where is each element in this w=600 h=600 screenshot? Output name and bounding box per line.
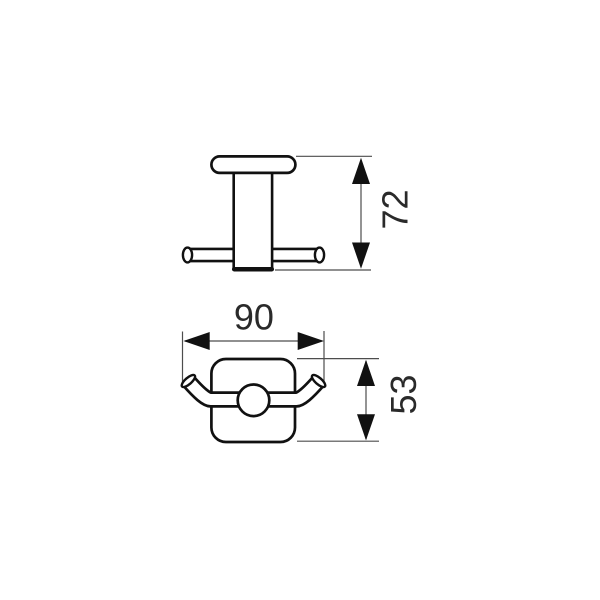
extension line bottom (53 dim) xyxy=(297,440,379,442)
extension line left (90 dim) xyxy=(182,332,184,389)
arrowhead right (90) xyxy=(298,332,324,350)
extension line top (53 dim) xyxy=(297,358,379,360)
svg-text:72: 72 xyxy=(375,189,416,229)
bar right end cap xyxy=(315,248,324,263)
post bottom thick edge xyxy=(234,267,272,272)
post (top view) xyxy=(234,170,272,269)
svg-text:90: 90 xyxy=(234,297,274,338)
extension line bottom (72 dim) xyxy=(275,269,371,271)
arrowhead down (53) xyxy=(357,414,375,440)
left hook arm xyxy=(188,381,253,400)
hook cross-bar (top view) xyxy=(188,248,320,263)
arrowhead left (90) xyxy=(183,332,209,350)
dimension line 72 xyxy=(360,160,362,266)
dimension line 53 xyxy=(365,361,367,439)
dimension line 90 xyxy=(185,340,322,342)
extension line right (90 dim) xyxy=(323,331,325,387)
arrowhead down (72) xyxy=(352,243,370,269)
left hook tip cap xyxy=(180,373,197,389)
arrowhead up (72) xyxy=(352,158,370,184)
wall plate (top view, edge) xyxy=(211,156,295,173)
bar left end cap xyxy=(183,248,192,263)
center boss circle xyxy=(238,385,270,417)
svg-text:53: 53 xyxy=(383,374,424,414)
wall plate (front view) xyxy=(211,359,295,442)
extension line top (72 dim) xyxy=(296,155,372,157)
right hook arm xyxy=(254,381,319,400)
right hook tip cap xyxy=(310,373,327,389)
arrowhead up (53) xyxy=(357,360,375,386)
